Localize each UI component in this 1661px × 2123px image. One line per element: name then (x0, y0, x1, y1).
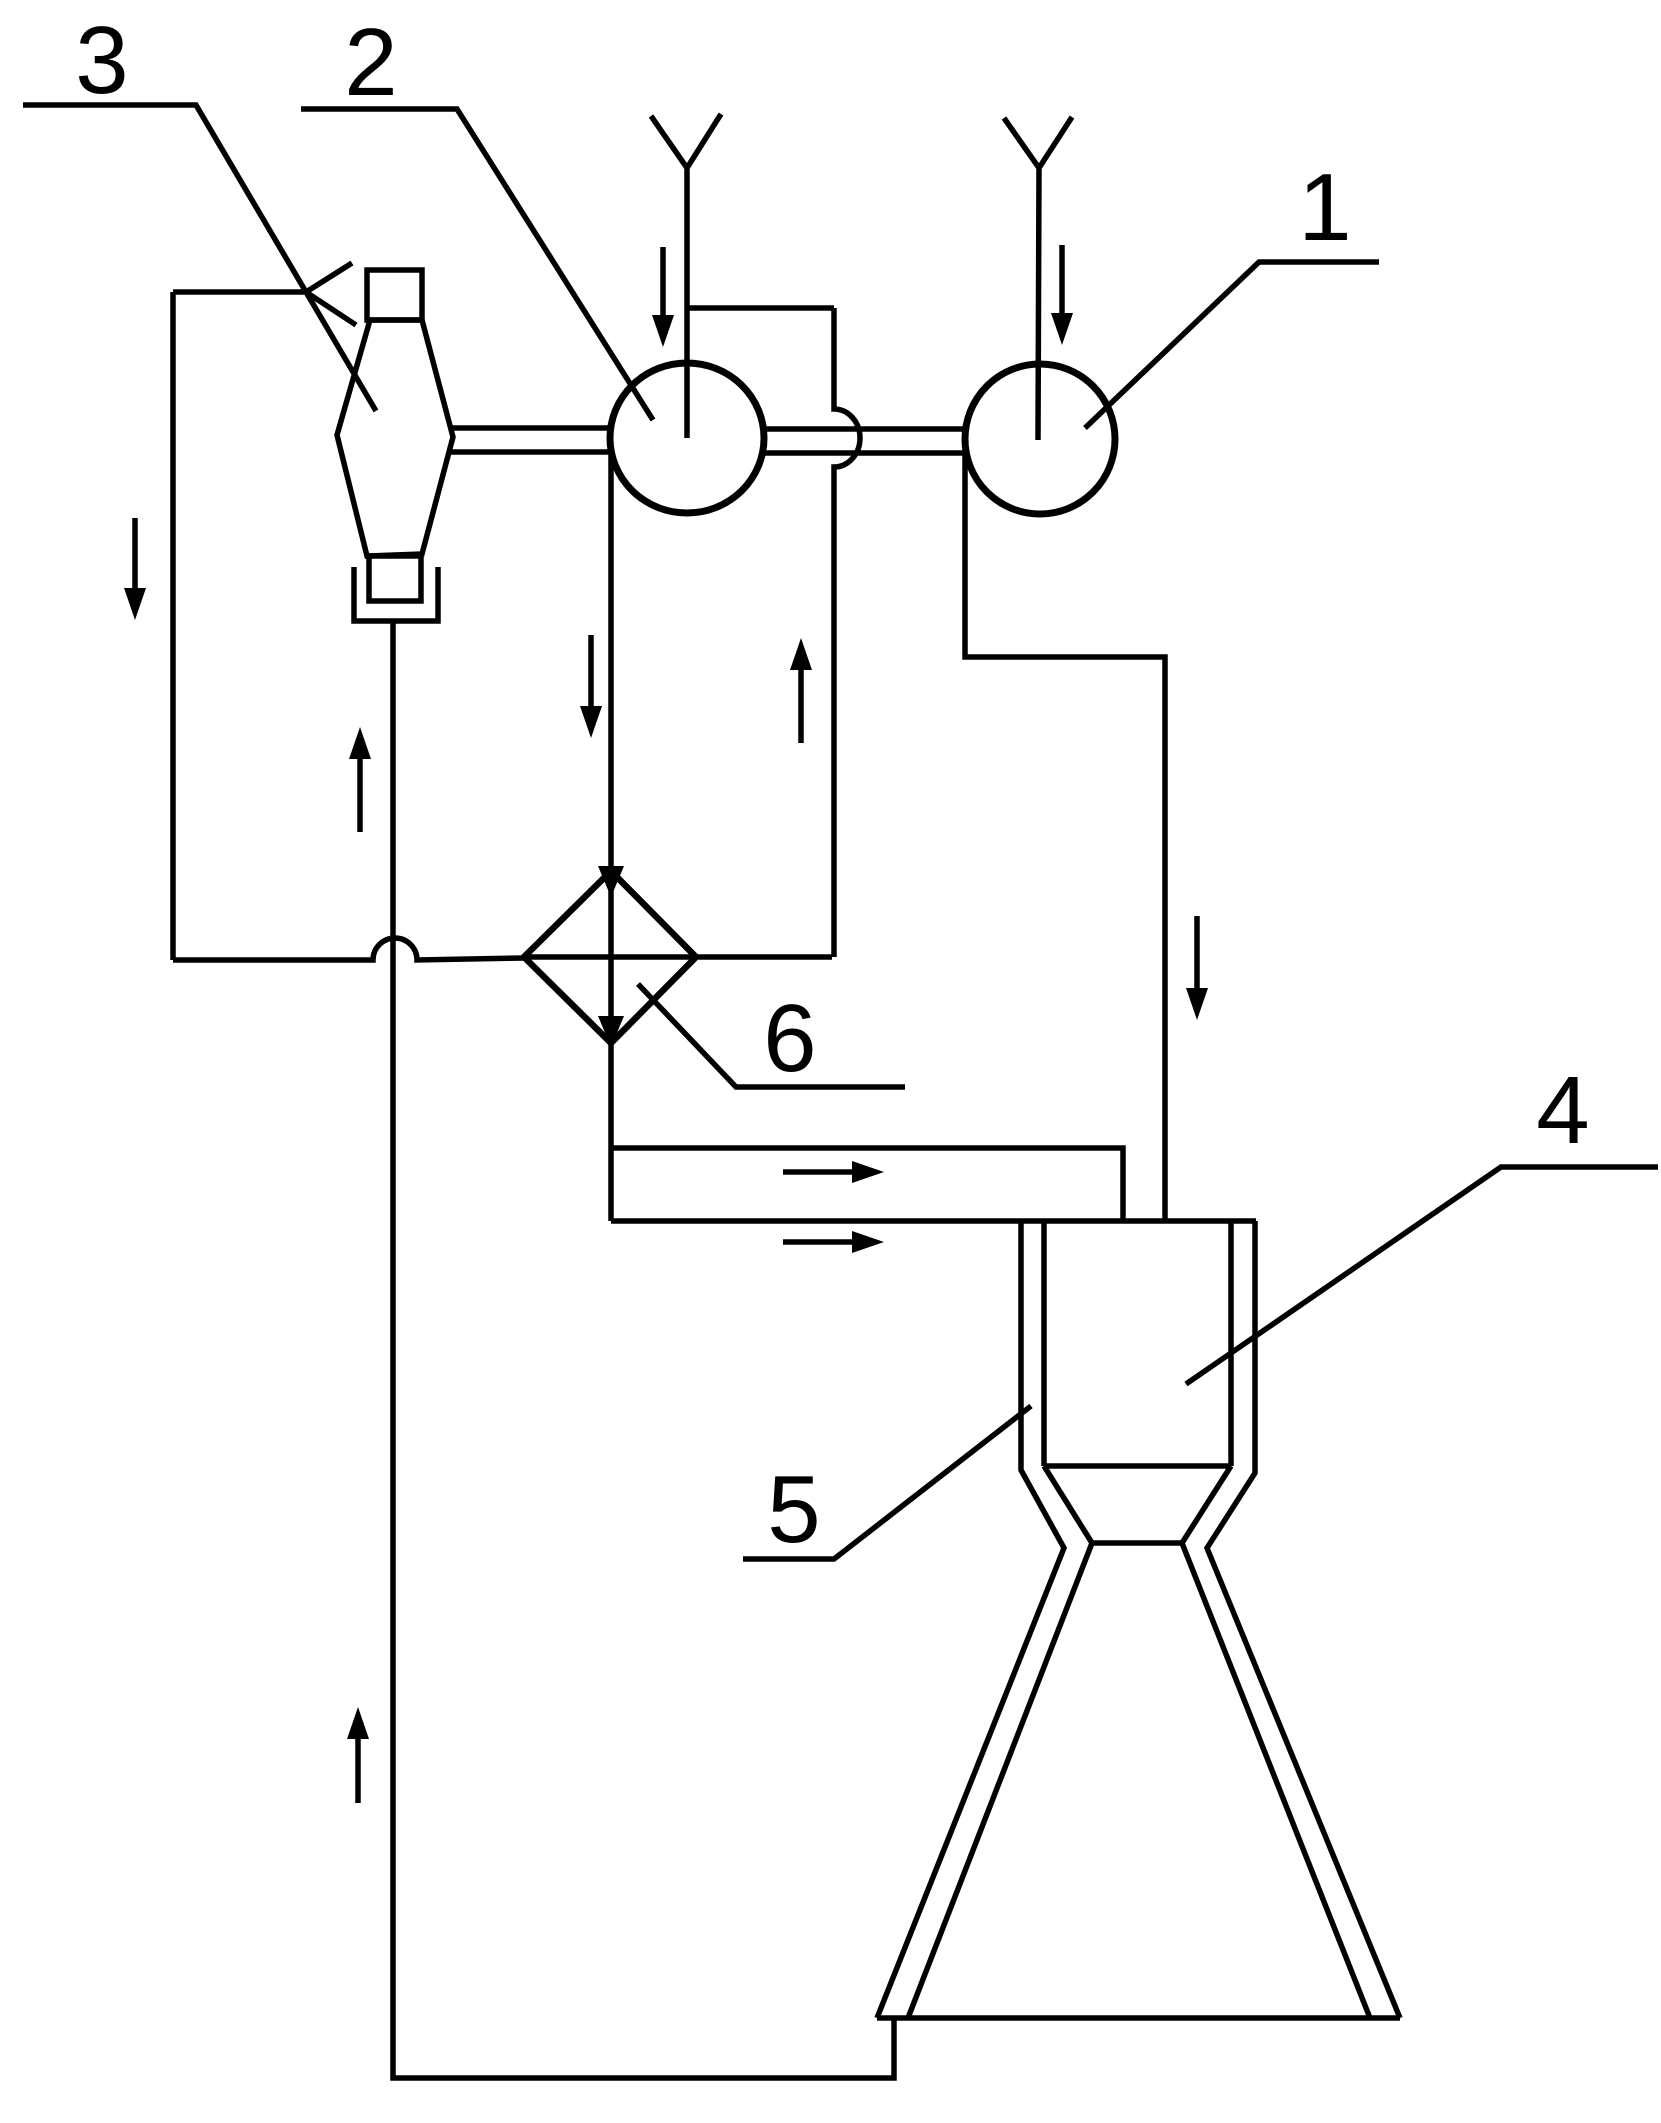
turbine 3 body (337, 320, 453, 556)
flow arrow down (pump 1 inlet) (1051, 245, 1073, 345)
wire pump 1 outlet (965, 453, 1165, 1221)
combustion chamber 4 inner bottom (1044, 1463, 1231, 1469)
combustion chamber 5 convergent inner left (1044, 1466, 1092, 1543)
nozzle divergent inner left (908, 1543, 1092, 2018)
wire bottom return pipe (393, 621, 894, 2078)
wire left loop bottom with hop (173, 938, 524, 960)
shaft pump 2 to pump 1 (765, 429, 963, 453)
flow arrow down (pump 2 outlet pipe) (580, 635, 602, 738)
nozzle divergent inner right (1182, 1543, 1370, 2018)
nozzle throat (1092, 1540, 1182, 1546)
svg-text:5: 5 (767, 1456, 820, 1563)
nozzle exit plane (877, 2015, 1400, 2021)
svg-text:3: 3 (75, 7, 128, 114)
wire through heat exchanger horizontal (524, 954, 832, 960)
heat exchanger 6 (524, 871, 696, 1043)
combustion chamber 4 outer right wall (1207, 1221, 1400, 2018)
label 6 (638, 984, 905, 1092)
turbine 3 mount cup (354, 567, 438, 621)
pump 2 (610, 363, 764, 513)
label 1 (1085, 154, 1379, 428)
inlet Y pump 2 (651, 114, 721, 438)
wire recirculation right with hop (834, 308, 860, 957)
combustion chamber 4 inner right wall (1228, 1221, 1234, 1466)
combustion chamber 5 convergent inner right (1182, 1466, 1231, 1543)
flow arrow right (below duct) (783, 1231, 884, 1253)
svg-text:1: 1 (1298, 154, 1351, 261)
flow arrow down (pump 1 delivery pipe) (1186, 916, 1208, 1020)
flow arrow down (left loop) (124, 518, 146, 620)
label 5 (743, 1406, 1031, 1563)
arrowhead down at heat exchanger bottom (598, 1016, 624, 1047)
wire left loop left side (170, 292, 176, 960)
flow arrow up (bottom return pipe) (347, 1707, 369, 1803)
shaft turbine to pump 2 (451, 428, 609, 452)
wire left loop top (173, 289, 306, 295)
svg-text:6: 6 (763, 985, 816, 1092)
arrowhead left loop top (306, 263, 356, 325)
inlet Y pump 1 (1004, 117, 1072, 440)
wire recirculation top (687, 305, 834, 311)
flow arrow up (turbine exhaust pipe) (349, 727, 371, 832)
svg-text:2: 2 (344, 9, 397, 116)
arrowhead down at heat exchanger top (598, 866, 624, 897)
turbine 3 top box (367, 270, 422, 320)
combustion chamber 4 inner left wall (1041, 1221, 1047, 1466)
flow arrow down (pump 2 inlet) (652, 247, 674, 347)
combustion chamber 4 outer left wall (877, 1221, 1064, 2018)
svg-text:4: 4 (1536, 1057, 1589, 1164)
duct top (611, 1148, 1123, 1221)
label 3 (23, 7, 376, 411)
flow arrow right (duct) (783, 1161, 884, 1183)
label 2 (301, 9, 653, 420)
label 4 (1186, 1057, 1658, 1384)
pump 1 (965, 364, 1115, 514)
flow arrow up (return pipe) (790, 638, 812, 743)
turbine 3 bottom box (369, 556, 421, 601)
wire pump 2 down pipe through heat exchanger (608, 450, 614, 1221)
duct bottom (611, 1218, 1256, 1224)
